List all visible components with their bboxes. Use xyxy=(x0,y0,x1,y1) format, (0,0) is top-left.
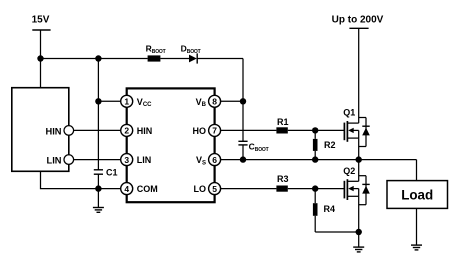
wire: Vcc column vertical xyxy=(97,59,99,170)
wire: R4 return to Q2 source xyxy=(315,231,359,233)
wire: Q1 source to Vs xyxy=(358,138,360,160)
wire: Vs line from pin 6 to load column xyxy=(221,159,417,161)
node: 15V rail junction xyxy=(37,55,43,61)
wire: load to ground xyxy=(416,208,418,245)
svg-text:2: 2 xyxy=(124,126,129,136)
supply Up to 200V xyxy=(332,15,384,29)
transistor Q2 xyxy=(343,166,370,205)
wire: HO to R1 xyxy=(221,129,277,131)
node: phase node Q1 source / Q2 drain xyxy=(356,156,362,162)
pin 6 xyxy=(196,154,221,167)
svg-text:Load: Load xyxy=(401,188,433,203)
node: Vcc pin junction xyxy=(95,98,101,104)
svg-text:R4: R4 xyxy=(324,204,336,214)
svg-text:R2: R2 xyxy=(324,140,336,150)
svg-text:1: 1 xyxy=(124,97,129,107)
svg-text:3: 3 xyxy=(124,155,129,165)
svg-text:LIN: LIN xyxy=(47,156,62,166)
ground (Q2 source) xyxy=(353,247,364,252)
node: Q2 gate junction xyxy=(312,185,318,191)
svg-text:COM: COM xyxy=(137,184,158,194)
svg-text:6: 6 xyxy=(212,155,217,165)
ground (load) xyxy=(411,245,422,250)
load box xyxy=(387,181,448,209)
wire: bootstrap vertical xyxy=(242,59,244,142)
wire: Vcc to pin 1 xyxy=(98,100,120,102)
wire: 15V vertical down to input box xyxy=(40,30,42,88)
pin 7 xyxy=(193,124,221,136)
pin 4 xyxy=(121,183,158,195)
svg-text:8: 8 xyxy=(212,97,217,107)
wire: Q2 source down xyxy=(358,196,360,247)
wire: LO to R3 xyxy=(221,188,277,190)
node: Q2 source / R4 return junction xyxy=(356,229,362,235)
node: R2 bottom on Vs xyxy=(312,156,318,162)
svg-text:R1: R1 xyxy=(277,117,289,127)
node: COM ground junction xyxy=(95,185,101,191)
pin 2 xyxy=(121,124,153,136)
svg-text:Up to 200V: Up to 200V xyxy=(332,15,384,26)
resistor R1 xyxy=(276,117,288,133)
diode DBOOT xyxy=(181,43,201,63)
terminal LIN xyxy=(47,155,74,166)
node: Vcc branch junction xyxy=(95,55,101,61)
svg-text:4: 4 xyxy=(124,184,129,194)
node: pin8 junction xyxy=(240,98,246,104)
input source box xyxy=(12,88,69,172)
wire: pin 8 to bootstrap column xyxy=(221,100,243,102)
wire: DBOOT to bootstrap column xyxy=(197,58,243,60)
wire: phase to Q2 drain xyxy=(358,160,360,182)
pin 5 xyxy=(194,183,221,195)
svg-text:Q2: Q2 xyxy=(343,166,355,176)
svg-text:HO: HO xyxy=(193,126,207,136)
ground (COM) xyxy=(93,208,104,213)
node: Vs junction at bootstrap column xyxy=(240,156,246,162)
supply 15V xyxy=(32,15,51,31)
capacitor CBOOT xyxy=(238,141,268,153)
pin 8 xyxy=(196,95,221,108)
wire: 15V rail to RBOOT xyxy=(41,58,148,60)
pin 1 xyxy=(121,95,152,108)
wire: C1 to ground xyxy=(97,174,99,207)
node: Q1 gate junction xyxy=(312,127,318,133)
svg-text:HIN: HIN xyxy=(137,126,153,136)
svg-text:HIN: HIN xyxy=(45,127,61,137)
svg-text:C1: C1 xyxy=(106,168,118,178)
resistor R4 xyxy=(313,189,335,232)
wire: phase down to load xyxy=(416,160,418,181)
svg-text:LIN: LIN xyxy=(137,155,152,165)
svg-text:7: 7 xyxy=(212,126,217,136)
wire: R1 to Q1 gate xyxy=(288,129,345,131)
svg-text:Q1: Q1 xyxy=(343,108,355,118)
wire: RBOOT to DBOOT xyxy=(160,58,189,60)
resistor R3 xyxy=(276,174,288,192)
wire: LIN to pin 3 xyxy=(74,159,121,161)
wire: HIN to pin 2 xyxy=(74,129,121,131)
transistor Q1 xyxy=(343,108,370,147)
wire: box bottom to COM xyxy=(41,171,121,188)
svg-text:R3: R3 xyxy=(277,174,289,184)
svg-text:5: 5 xyxy=(212,184,217,194)
pin 3 xyxy=(121,154,152,166)
svg-text:15V: 15V xyxy=(32,15,50,26)
terminal HIN xyxy=(45,126,73,137)
wire: R3 to Q2 gate xyxy=(288,188,345,190)
op-amp U1 gate driver IC body xyxy=(127,88,215,202)
svg-text:LO: LO xyxy=(194,184,207,194)
resistor RBOOT xyxy=(146,43,166,61)
capacitor C1 xyxy=(94,168,118,178)
wire: 200V down to Q1 drain xyxy=(358,28,360,123)
wire: CBOOT to Vs line xyxy=(242,145,244,160)
resistor R2 xyxy=(313,130,336,159)
